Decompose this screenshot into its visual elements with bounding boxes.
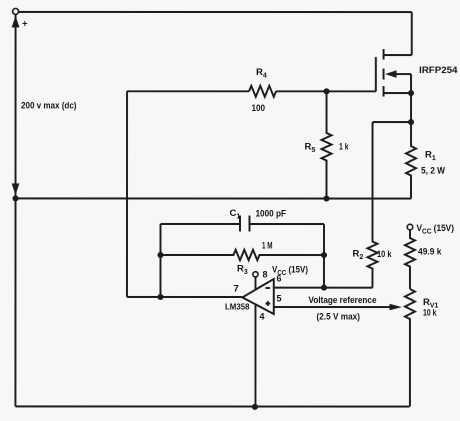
terminal + (positive input) <box>13 8 19 14</box>
potentiometer RV1 <box>405 289 415 407</box>
op-amp U1 LM358 <box>242 279 273 314</box>
capacitor C1 branch wires <box>160 223 323 225</box>
body arrowhead <box>385 70 397 78</box>
node 1M left junction <box>157 252 163 258</box>
node output junction <box>157 294 163 300</box>
wire mid rail <box>16 197 411 199</box>
drain lead <box>384 54 412 56</box>
wire bottom rail <box>15 405 409 407</box>
svg-text:Voltage reference: Voltage reference <box>308 295 376 305</box>
wire left rail <box>14 14 16 406</box>
node pin6 junction <box>321 285 327 291</box>
svg-text:8: 8 <box>262 270 267 280</box>
node pin4 ground junction <box>252 404 258 410</box>
resistor R2 with leads <box>367 122 377 288</box>
body line <box>395 73 411 75</box>
resistor R4 <box>249 86 276 97</box>
node source junction <box>408 90 414 96</box>
wire pin 4 lead <box>254 304 256 406</box>
wire feedback right vertical <box>323 224 325 288</box>
svg-text:LM358: LM358 <box>225 302 250 311</box>
svg-text:IRFP254: IRFP254 <box>419 65 458 75</box>
source lead <box>384 92 412 94</box>
svg-text:+: + <box>22 18 28 29</box>
resistor R1 <box>406 122 416 199</box>
svg-text:5, 2 W: 5, 2 W <box>421 166 445 176</box>
wire pin 6 lead <box>274 287 373 289</box>
svg-text:200 v max (dc): 200 v max (dc) <box>21 100 77 110</box>
label minus input <box>265 287 270 289</box>
gate bar <box>375 57 377 92</box>
capacitor C1 plates <box>240 216 250 232</box>
svg-text:49.9 k: 49.9 k <box>418 247 442 257</box>
wire top rail <box>19 11 412 13</box>
pin 8 terminal circle <box>253 272 258 277</box>
wire right drop to drain <box>411 12 413 55</box>
wire gate line (R4 output line) <box>127 90 376 92</box>
resistor R5 <box>322 91 332 198</box>
svg-text:100: 100 <box>252 103 266 114</box>
node gate/R5 junction <box>323 88 329 94</box>
label plus input <box>265 301 270 306</box>
transistor Q1 IRFP254 <box>376 49 412 122</box>
svg-text:6: 6 <box>276 274 281 284</box>
svg-text:5: 5 <box>276 294 281 304</box>
wire feedback left vertical <box>159 224 161 297</box>
terminal VCC right <box>407 224 413 230</box>
node R5 bottom junction <box>323 195 329 201</box>
svg-text:1000 pF: 1000 pF <box>255 209 286 219</box>
arrowhead down (200v arrow) <box>12 183 20 195</box>
svg-text:1 M: 1 M <box>262 241 273 251</box>
wire output lead <box>127 296 242 298</box>
resistor 1M with leads <box>160 250 324 260</box>
wire body-to-source <box>410 74 412 122</box>
svg-text:4: 4 <box>259 312 264 322</box>
node sense junction <box>408 119 414 125</box>
wire sense branch <box>373 121 412 123</box>
svg-text:7: 7 <box>233 284 238 295</box>
svg-text:10 k: 10 k <box>423 308 437 318</box>
node 1M right junction <box>321 252 327 258</box>
channel bar segments <box>383 49 385 96</box>
svg-text:10 k: 10 k <box>377 249 392 259</box>
node left-mid junction <box>12 195 18 201</box>
pin 8 stub <box>254 277 256 290</box>
wire drive vertical (op-amp out to R4) <box>126 91 128 297</box>
resistor 49.9k with leads <box>405 230 415 289</box>
wire pin 5 lead / voltage reference <box>274 306 391 308</box>
svg-text:(2.5 V max): (2.5 V max) <box>316 312 360 322</box>
arrowhead up (200v arrow) <box>12 16 20 28</box>
svg-text:1 k: 1 k <box>339 142 349 152</box>
arrowhead wiper <box>389 304 402 311</box>
